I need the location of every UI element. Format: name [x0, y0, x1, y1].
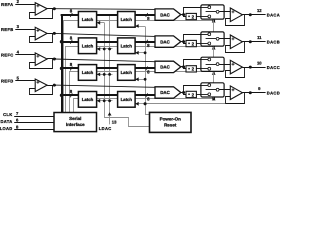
svg-text:10: 10	[257, 61, 262, 66]
node output D	[249, 91, 252, 94]
power-on reset block	[150, 112, 192, 132]
wire feedback output amp C	[226, 68, 245, 78]
op-amp reference buffer B	[35, 27, 47, 40]
svg-text:Latch: Latch	[82, 70, 94, 75]
bus width slash 8 row B	[70, 40, 72, 44]
input latch A	[78, 12, 96, 28]
node junction V3 row C	[144, 78, 147, 81]
node DAC C output	[182, 65, 185, 68]
wire feedback buffer B	[30, 34, 53, 43]
wire input latch B clock stub	[97, 48, 113, 50]
wire switch D to amp	[219, 89, 230, 91]
node DAC B output	[182, 40, 185, 43]
wire REFB input	[15, 29, 35, 31]
wire gain-select control row A from serial interface	[64, 21, 214, 113]
op-amp reference buffer C	[35, 53, 47, 66]
wire bus DAC latch C to DAC	[135, 67, 155, 69]
DAC latch B	[118, 38, 136, 54]
wire DAC D output	[181, 92, 185, 94]
wire data bus row D to input latch	[61, 94, 79, 96]
node junction V1 row C	[103, 73, 106, 76]
svg-text:Reset: Reset	[164, 123, 177, 128]
wire feedback output amp A	[226, 15, 245, 26]
wire DAC latch A clock stub	[135, 26, 145, 28]
wire DACD output pin	[242, 92, 265, 94]
node junction V2 row C	[108, 73, 111, 76]
wire LDAC net vertical	[109, 16, 111, 125]
wire REFA input	[15, 4, 35, 6]
wire switch A to amp	[219, 11, 230, 13]
bus width slash 8 before DAC D	[146, 93, 148, 97]
wire DAC C output	[181, 66, 185, 68]
wire feedback output amp D	[226, 93, 245, 104]
wire REFC input	[15, 54, 35, 56]
wire bus DAC latch B to DAC	[135, 41, 155, 43]
wire bus input latch C to DAC latch	[97, 67, 118, 69]
wire arrow into gain switch D	[212, 97, 216, 100]
node DAC D output	[182, 91, 185, 94]
wire REFD to DAC	[54, 85, 155, 87]
node buffer A output	[53, 7, 56, 10]
gain select switch B	[201, 32, 224, 46]
bus width slash 8 row A	[70, 13, 72, 17]
svg-text:DACC: DACC	[267, 65, 280, 70]
input latch B	[78, 38, 96, 54]
wire x2 out B	[196, 43, 208, 45]
wire REFC to DAC	[54, 59, 155, 62]
node output C	[249, 66, 252, 69]
wire buffer B output	[47, 33, 56, 35]
svg-text:Power-On: Power-On	[160, 116, 182, 121]
wire DACC output pin	[242, 67, 265, 69]
op-amp output buffer A	[230, 8, 242, 22]
node junction V1 row D	[103, 99, 106, 102]
svg-text:REFC: REFC	[1, 52, 14, 57]
svg-text:CLK: CLK	[3, 112, 12, 117]
wire DATA input	[14, 122, 54, 124]
node buffer C output	[53, 58, 56, 61]
svg-text:Latch: Latch	[121, 17, 133, 22]
node output B	[249, 40, 252, 43]
wire bus DAC latch A to DAC	[135, 14, 155, 16]
bus width slash 8 row C	[70, 66, 72, 70]
svg-text:LDAC: LDAC	[99, 126, 112, 131]
wire buffer A output	[47, 8, 56, 10]
svg-text:DAC: DAC	[160, 65, 170, 70]
svg-text:DAC: DAC	[160, 12, 170, 17]
DAC A	[155, 9, 181, 20]
wire feedback buffer A	[30, 9, 53, 19]
node junction V2 row B	[108, 48, 111, 51]
wire DAC latch D clock stub	[135, 103, 145, 105]
DAC latch A	[118, 12, 136, 28]
svg-text:REFA: REFA	[1, 2, 13, 7]
wire arrow into gain switch B	[212, 46, 216, 49]
node gain control junction B	[212, 45, 215, 48]
serial interface block	[54, 113, 97, 132]
wire DAC latch B clock stub	[135, 52, 145, 54]
wire DAC-latch clock net vertical to POR	[146, 27, 150, 115]
x2 amplifier D	[186, 91, 196, 97]
svg-text:Interface: Interface	[66, 122, 85, 127]
svg-text:LOAD: LOAD	[0, 126, 13, 131]
svg-text:DAC: DAC	[160, 39, 170, 44]
svg-text:REFD: REFD	[1, 78, 14, 83]
node junction V3 row B	[144, 51, 147, 54]
wire DACB output pin	[242, 41, 265, 43]
wire input latch C clock stub	[97, 74, 113, 76]
svg-text:11: 11	[257, 35, 262, 40]
x2 amplifier A	[186, 13, 196, 19]
svg-text:Latch: Latch	[82, 43, 94, 48]
wire buffer D output	[47, 85, 56, 87]
wire buffer C output	[47, 58, 56, 60]
wire arrow into gain switch C	[212, 72, 216, 75]
gain select switch C	[201, 57, 224, 71]
wire feedback output amp B	[226, 42, 245, 53]
svg-text:DAC: DAC	[160, 90, 170, 95]
svg-text:13: 13	[112, 119, 117, 124]
DAC latch C	[118, 65, 136, 81]
switch lever A	[206, 11, 217, 13]
wire data bus row B to input latch	[61, 41, 79, 43]
op-amp output buffer D	[230, 86, 242, 100]
bus width slash 8 before DAC C	[146, 66, 148, 70]
wire to x2 amp B	[184, 42, 187, 44]
wire gain control chain segment	[213, 21, 215, 32]
wire to x2 amp C	[184, 67, 187, 69]
node buffer D output	[53, 84, 56, 87]
wire arrow into gain switch A	[212, 19, 216, 22]
switch lever D	[206, 89, 217, 91]
wire 8-bit data bus vertical from serial interface	[61, 15, 63, 113]
x2 amplifier C	[186, 66, 196, 72]
node gain control junction D	[212, 97, 215, 100]
op-amp output buffer B	[230, 35, 242, 49]
wire feedback buffer C	[30, 59, 53, 69]
node gain control junction A	[212, 19, 215, 22]
bus width slash 8 before DAC B	[146, 40, 148, 44]
wire switch B to amp	[219, 38, 230, 40]
wire gain control chain segment	[213, 46, 215, 57]
wire REFB to DAC	[54, 33, 155, 36]
wire data bus row A to input latch	[61, 14, 79, 16]
op-amp output buffer C	[230, 60, 242, 74]
switch lever C	[206, 64, 217, 66]
node output A	[249, 13, 252, 16]
wire DAC latch C clock stub	[135, 79, 145, 81]
wire REFA to DAC	[54, 8, 155, 11]
DAC D	[155, 87, 181, 98]
wire POR net extension row D	[145, 103, 225, 105]
wire x2 out A	[196, 16, 208, 18]
svg-text:DACD: DACD	[267, 91, 280, 96]
node junction V2 row D	[108, 99, 111, 102]
wire CLK input	[14, 116, 54, 118]
svg-text:DACA: DACA	[267, 13, 280, 18]
wire bus DAC latch D to DAC	[135, 94, 155, 96]
svg-text:Latch: Latch	[121, 43, 133, 48]
wire gain-select control row C from serial interface	[70, 72, 214, 113]
wire x1 path D	[184, 86, 209, 93]
node junction V1 row B	[103, 48, 106, 51]
switch lever B	[206, 38, 217, 40]
svg-text:Latch: Latch	[121, 70, 133, 75]
wire DAC A output	[181, 14, 185, 16]
x2 amplifier B	[186, 40, 196, 46]
svg-text:REFB: REFB	[1, 27, 14, 32]
DAC latch D	[118, 92, 136, 108]
bus width slash 8 before DAC A	[146, 13, 148, 17]
DAC C	[155, 61, 181, 72]
op-amp reference buffer A	[35, 3, 47, 16]
node gain control junction C	[212, 70, 215, 73]
wire LOAD input	[14, 129, 54, 131]
wire switch C to amp	[219, 64, 230, 66]
wire DACA output pin	[242, 14, 265, 16]
wire DAC B output	[181, 41, 185, 43]
bus width slash 8 row D	[70, 93, 72, 97]
op-amp reference buffer D	[35, 79, 47, 92]
svg-text:Latch: Latch	[82, 17, 94, 22]
LDAC pin 13	[108, 112, 112, 115]
gain select switch A	[201, 5, 224, 19]
wire bus input latch D to DAC latch	[97, 94, 118, 96]
node buffer B output	[53, 32, 56, 35]
wire gain-select control row D from serial interface	[74, 99, 214, 113]
wire x2 out D	[196, 94, 208, 96]
node DAC A output	[182, 13, 185, 16]
input latch D	[78, 92, 96, 108]
wire bus input latch B to DAC latch	[97, 41, 118, 43]
wire feedback buffer D	[30, 86, 53, 95]
gain select switch D	[201, 83, 224, 97]
wire input-latch clock net vertical to POR	[105, 23, 150, 127]
wire gain control chain segment	[213, 71, 215, 83]
node bus branch C	[60, 67, 63, 70]
DAC B	[155, 36, 181, 47]
wire to x2 amp D	[184, 93, 187, 95]
svg-text:DACB: DACB	[267, 40, 280, 45]
node POR tap on DAC-latch clock net	[144, 102, 147, 105]
node bus branch D	[60, 94, 63, 97]
node bus branch B	[60, 40, 63, 43]
svg-text:Latch: Latch	[82, 97, 94, 102]
input latch C	[78, 65, 96, 81]
wire input latch D clock stub	[97, 100, 113, 102]
wire gain-select control row B from serial interface	[66, 47, 214, 113]
wire x1 path B	[184, 35, 209, 42]
svg-text:DATA: DATA	[1, 119, 13, 124]
wire x1 path A	[184, 8, 209, 15]
wire REFD input	[15, 80, 35, 82]
wire x1 path C	[184, 60, 209, 67]
svg-text:Serial: Serial	[69, 116, 81, 121]
wire data bus row C to input latch	[61, 67, 79, 69]
wire bus input latch A to DAC latch	[97, 14, 118, 16]
svg-text:Latch: Latch	[121, 97, 133, 102]
wire input latch A clock stub	[97, 22, 104, 24]
svg-text:12: 12	[257, 8, 262, 13]
wire x2 out C	[196, 68, 208, 70]
node junction V3 row D	[144, 102, 147, 105]
wire to x2 amp A	[184, 15, 187, 17]
